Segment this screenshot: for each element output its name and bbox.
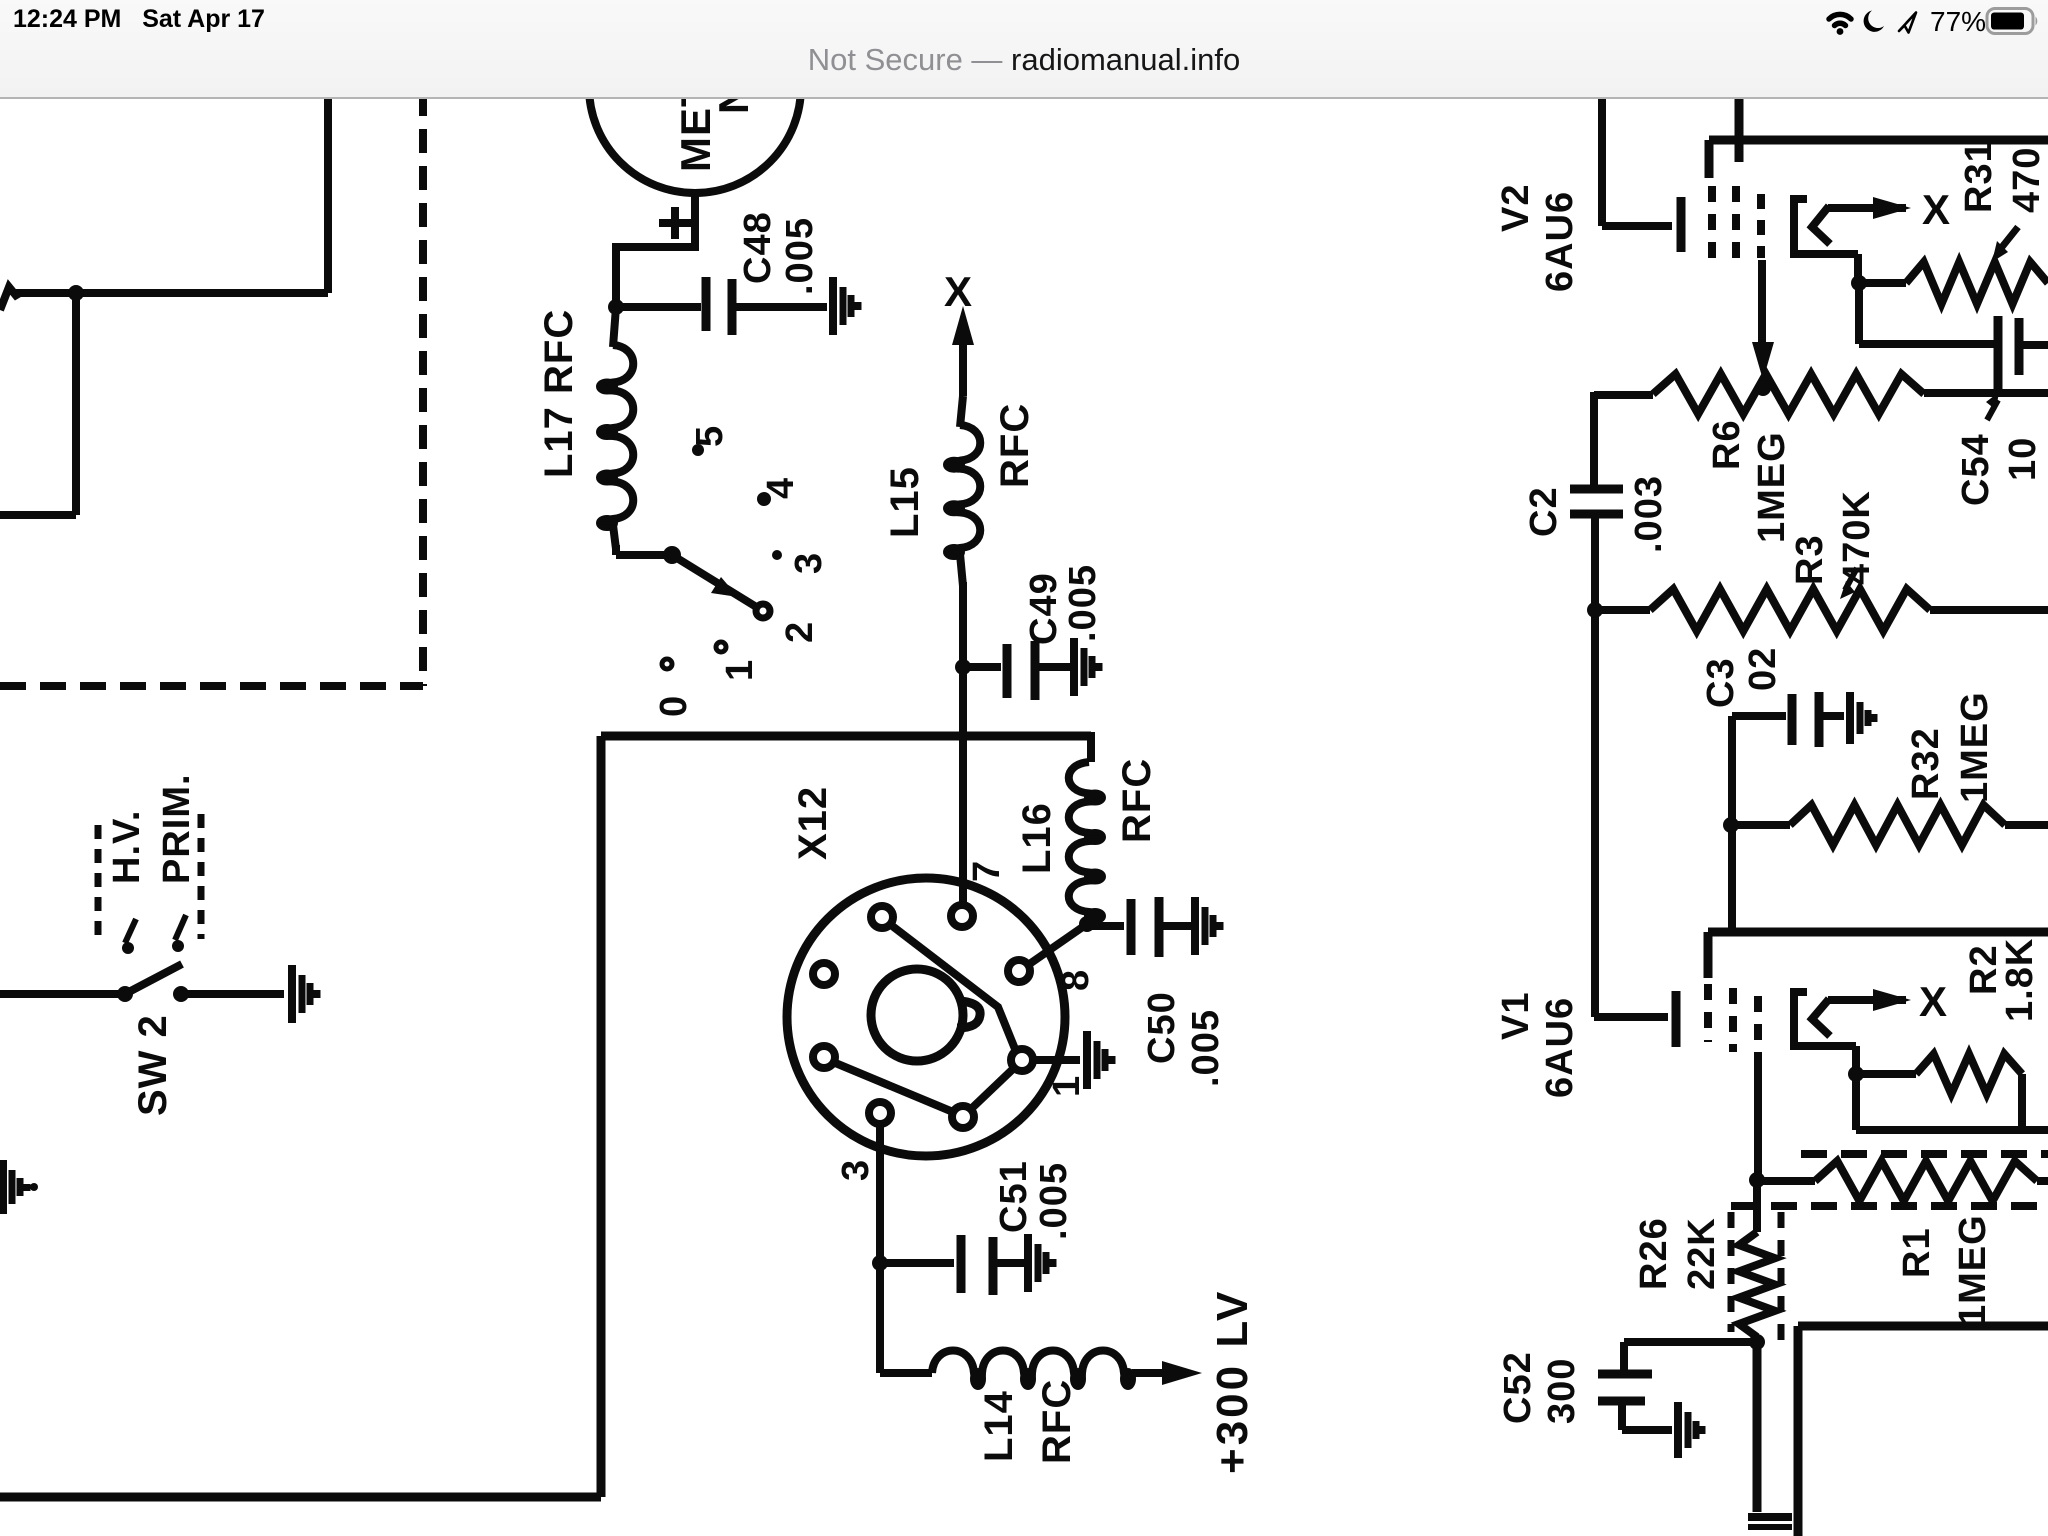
terminal hook V1 (1794, 992, 1856, 1046)
wire R26 node down (1753, 1342, 1762, 1512)
tube V1 grid dash 1 (1704, 984, 1712, 1042)
dashed line upper (1801, 1150, 2048, 1158)
ground C3 (1846, 692, 1854, 744)
wire junction down (72, 293, 80, 515)
switch wiper arm (663, 546, 681, 564)
wire R32 right (2005, 821, 2048, 829)
svg-text:1MEG: 1MEG (1952, 1214, 1994, 1326)
socket jumper top (891, 925, 1015, 1049)
wire node to C51 (880, 1259, 954, 1267)
svg-text:5: 5 (689, 425, 731, 447)
wire C3 horizontal (1732, 712, 1786, 720)
resistor R3 470K (1650, 589, 1930, 631)
svg-text:.005: .005 (1185, 1009, 1227, 1087)
wire hook arrow V1 (1828, 996, 1906, 1004)
wire R32 lead (1731, 821, 1790, 829)
socket jumper bottom-left (833, 1062, 953, 1112)
svg-text:R31: R31 (1958, 140, 2000, 213)
node junction top-left (68, 285, 84, 301)
wire R26 top (1753, 1180, 1761, 1232)
socket pin top-left (871, 906, 893, 928)
svg-text:1: 1 (1046, 1075, 1088, 1097)
ground C52 (1674, 1402, 1682, 1458)
location arrow icon (1899, 13, 1916, 33)
box R1 corner (1794, 1326, 1803, 1536)
svg-text:V2: V2 (1495, 184, 1537, 232)
svg-text:1.8K: 1.8K (1999, 938, 2041, 1022)
svg-text:X: X (944, 268, 972, 315)
ground SW2 (288, 965, 296, 1023)
wire V1 grid rail (1708, 928, 2048, 937)
wire dashed shield vertical (419, 92, 427, 686)
wire top-left vertical (324, 92, 332, 293)
capacitor C3 (1788, 694, 1797, 745)
svg-text:L17 RFC: L17 RFC (537, 309, 581, 478)
svg-text:6AU6: 6AU6 (1539, 191, 1581, 292)
svg-text:RFC: RFC (1035, 1379, 1079, 1464)
node R26 bottom (1749, 1334, 1765, 1350)
svg-text:SW 2: SW 2 (131, 1014, 175, 1116)
socket pin 8 (1008, 960, 1030, 982)
tube V2 cathode (1598, 92, 1606, 226)
svg-text:2: 2 (779, 621, 821, 643)
ground C51 (1024, 1234, 1032, 1292)
terminal X arrow up (959, 342, 967, 396)
box shield top (601, 732, 1091, 741)
switch SW2 (117, 986, 133, 1002)
socket jumper bottom-right (971, 1068, 1014, 1109)
svg-text:R1: R1 (1896, 1227, 1938, 1278)
svg-text:.003: .003 (1628, 475, 1670, 553)
svg-text:1MEG: 1MEG (1751, 431, 1793, 543)
wire C3 down (1728, 716, 1736, 932)
wire to C54 (1859, 340, 1994, 348)
node L16 C50 junction (1079, 916, 1095, 932)
tube V1 grid dash 2 (1729, 988, 1737, 1052)
wire meter to junction (616, 193, 695, 307)
wire to L14 (880, 1369, 932, 1377)
terminal bar bottom (1748, 1513, 1792, 1521)
capacitor C51 (957, 1235, 966, 1293)
wire C49 node to pin7 (959, 667, 967, 904)
tube socket X12 outline (787, 878, 1065, 1156)
svg-text:C48: C48 (737, 211, 779, 284)
inductor L16 RFC (1087, 732, 1095, 762)
svg-text:6AU6: 6AU6 (1539, 997, 1581, 1098)
switch contact 1 (716, 642, 726, 652)
wire L15 to C49 node (959, 582, 967, 667)
wire node to C49 (963, 663, 1001, 671)
node meter junction (608, 299, 624, 315)
wire dashed shield horizontal (0, 682, 423, 690)
tube V1 cathode (1594, 1013, 1668, 1021)
node C49 junction (955, 659, 971, 675)
svg-text:R6: R6 (1706, 419, 1748, 470)
wire R3 lead (1595, 606, 1650, 614)
dashed box left (1728, 1212, 1735, 1332)
node R6 wiper (1755, 380, 1771, 396)
plus polarity mark (659, 219, 691, 227)
ground pin1 (1083, 1031, 1091, 1089)
socket pin left-lower (813, 1046, 835, 1068)
capacitor C2 (1570, 485, 1623, 494)
svg-text:10: 10 (2002, 437, 2044, 481)
tube V2 grid dash 1 (1708, 186, 1716, 260)
svg-text:C2: C2 (1523, 486, 1565, 537)
node R32 junction (1723, 817, 1739, 833)
wire top-left horizontal (14, 289, 328, 297)
wire V2 plate lead (1735, 92, 1744, 162)
svg-text:7: 7 (966, 860, 1008, 882)
svg-text:C52: C52 (1497, 1351, 1539, 1424)
node R2 junction (1848, 1066, 1864, 1082)
svg-text:RFC: RFC (1115, 758, 1159, 843)
wire V1 rail stub (1704, 932, 1713, 978)
wire C2 down (1591, 514, 1599, 1017)
socket keyway (871, 969, 963, 1061)
wire C52 down (1618, 1401, 1626, 1430)
wire hook down V1 (1852, 1046, 1860, 1070)
wire R2 return (1856, 1126, 2048, 1134)
socket pin 1 (1011, 1049, 1033, 1071)
wire C52 to node (1624, 1338, 1757, 1346)
wire C2 top (1590, 392, 1598, 487)
ground left edge (0, 1160, 7, 1214)
svg-text:470: 470 (2006, 147, 2048, 213)
svg-text:X: X (1919, 978, 1947, 1025)
svg-text:.005: .005 (1062, 564, 1104, 642)
svg-text:1MEG: 1MEG (1954, 691, 1996, 803)
switch contact 3 (772, 550, 782, 560)
ground C50 (1191, 897, 1199, 955)
svg-text:C51: C51 (993, 1160, 1035, 1233)
resistor R2 1.8K (1916, 1054, 2022, 1094)
wire pin8 to L16 (1028, 924, 1087, 965)
resistor R6 1MEG (1653, 374, 1924, 414)
wire R1 lead (1757, 1177, 1815, 1185)
capacitor C54 (1994, 316, 2003, 391)
wire pin3 down (876, 1125, 884, 1373)
svg-text:470K: 470K (1836, 490, 1878, 585)
wire rail stub (1705, 140, 1714, 178)
capacitor C50 (1127, 899, 1136, 955)
node C51 junction (872, 1255, 888, 1271)
svg-text:C54: C54 (1955, 433, 1997, 506)
capacitor C48 (702, 277, 711, 331)
wire L14 to arrow (1132, 1369, 1164, 1377)
svg-text:L15: L15 (883, 466, 927, 538)
resistor R31 470 (1906, 262, 2048, 304)
svg-text:RFC: RFC (993, 403, 1037, 488)
switch contact 5 (692, 444, 704, 456)
svg-text:.005: .005 (779, 217, 821, 295)
tube V1 grid dash 3 (1754, 996, 1762, 1048)
pot arrow R31 (1998, 227, 2018, 252)
svg-text:H.V.: H.V. (106, 810, 148, 884)
dashed bracket left (95, 825, 102, 939)
inductor L14 RFC (932, 1351, 1132, 1383)
resistor R1 1MEG (1815, 1161, 2037, 1201)
battery icon (1987, 9, 2033, 34)
dashed bracket right (198, 814, 205, 939)
svg-text:1: 1 (719, 659, 761, 681)
resistor stub left edge (0, 287, 18, 310)
inductor L17 RFC (603, 345, 633, 527)
wire V2 plate rail (1709, 136, 2048, 145)
terminal hook V2 (1794, 199, 1858, 254)
dashed line lower (1731, 1202, 2048, 1210)
svg-text:R3: R3 (1789, 534, 1831, 585)
meter M1 circle (589, 0, 801, 193)
switch contact 0 (662, 659, 672, 669)
switch contact 4 (757, 492, 771, 506)
wire junction to C48 (616, 303, 701, 311)
resistor R26 22K (1739, 1232, 1775, 1337)
wire R6 left lead (1594, 391, 1653, 399)
node R31 junction (1851, 275, 1867, 291)
svg-text:R32: R32 (1905, 727, 1947, 800)
wire V1 plate down (1754, 1052, 1762, 1176)
svg-text:C3: C3 (1700, 657, 1742, 708)
wire R1 right (2037, 1177, 2048, 1185)
ground C48 (829, 277, 837, 335)
svg-text:V1: V1 (1495, 992, 1537, 1040)
svg-text:X12: X12 (791, 786, 835, 860)
wire SW2 left (0, 990, 125, 998)
svg-text:8: 8 (1055, 969, 1097, 991)
dashed box right (1778, 1212, 1785, 1345)
svg-text:R26: R26 (1633, 1217, 1675, 1290)
tube V2 grid dash 2 (1732, 186, 1740, 262)
socket pin bottom (952, 1106, 974, 1128)
capacitor C52 (1598, 1370, 1652, 1379)
node R1 junction (1749, 1172, 1765, 1188)
wire coil to wiper (612, 545, 620, 555)
svg-text:C49: C49 (1023, 572, 1065, 645)
resistor R32 1MEG (1790, 805, 2005, 845)
wire R31 lead (1859, 279, 1906, 287)
label R3 leader arrow (1845, 568, 1857, 590)
svg-text:77%: 77% (1930, 6, 1986, 37)
switch SW2 aux contact a (125, 919, 136, 943)
svg-text:X: X (1922, 186, 1950, 233)
svg-text:02: 02 (1742, 647, 1784, 691)
svg-text:C50: C50 (1141, 991, 1183, 1064)
box shield left (597, 736, 606, 1497)
svg-text:0: 0 (653, 695, 695, 717)
capacitor C49 (1003, 644, 1012, 698)
wire hook down (1854, 254, 1862, 281)
wire bottom rail (0, 1493, 601, 1502)
svg-text:4: 4 (760, 477, 802, 499)
wire R2 return down (1852, 1074, 1860, 1130)
switch SW2 aux contact b (175, 915, 186, 940)
wire left edge horizontal (0, 511, 76, 519)
tube V2 grid dash 3 (1757, 194, 1765, 258)
wire hook arrow (1828, 204, 1906, 212)
wifi icon (1829, 14, 1851, 34)
svg-text:L16: L16 (1015, 802, 1059, 874)
svg-text:22K: 22K (1681, 1217, 1723, 1290)
svg-text:PRIM.: PRIM. (156, 773, 198, 884)
wire R2 lead (1856, 1070, 1916, 1078)
wire R6 right (1924, 389, 2048, 397)
svg-text:3: 3 (835, 1159, 877, 1181)
svg-text:.005: .005 (1033, 1162, 1075, 1240)
wire R31 down (1855, 283, 1863, 344)
label C54 leader arrow (1987, 400, 1998, 420)
wire C52 stub (1620, 1342, 1628, 1372)
wire node to C50 (1087, 922, 1124, 930)
inductor L15 RFC (950, 425, 980, 556)
svg-text:3: 3 (788, 552, 830, 574)
socket pin 7 (951, 905, 973, 927)
wire V2 grid to R6 wiper (1758, 260, 1766, 344)
svg-text:+300 LV: +300 LV (1208, 1289, 1257, 1474)
wire R3 right (1930, 606, 2048, 614)
svg-text:300: 300 (1541, 1358, 1583, 1424)
socket pin left (813, 963, 835, 985)
socket pin 3 (869, 1102, 891, 1124)
wire pin1 to ground (1034, 1056, 1080, 1064)
svg-text:L14: L14 (977, 1390, 1021, 1462)
ground C49 (1070, 638, 1078, 696)
node R3 junction (1587, 602, 1603, 618)
moon icon (1864, 11, 1884, 32)
